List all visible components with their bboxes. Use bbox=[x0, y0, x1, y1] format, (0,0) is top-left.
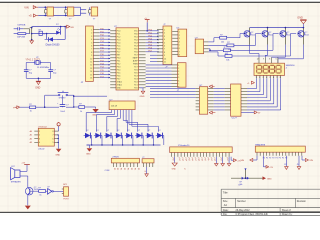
connector J1 bbox=[81, 26, 100, 84]
resistor pack RP1 bbox=[109, 99, 135, 109]
diode D2 bbox=[45, 37, 61, 46]
svg-text:Size: Size bbox=[223, 200, 228, 203]
svg-text:8: 8 bbox=[164, 52, 165, 54]
svg-text:U?: U? bbox=[36, 57, 38, 59]
svg-text:9012: 9012 bbox=[251, 34, 255, 36]
svg-text:P0.5: P0.5 bbox=[134, 49, 138, 51]
led D3 bbox=[84, 130, 92, 145]
svg-text:P1: P1 bbox=[137, 168, 139, 170]
svg-text:3: 3 bbox=[164, 36, 165, 38]
led D1 bbox=[56, 24, 60, 34]
svg-text:P2: P2 bbox=[266, 158, 268, 160]
ground sym speaker bbox=[25, 195, 31, 209]
svg-text:GND: GND bbox=[55, 155, 60, 157]
ic U5 bbox=[195, 37, 209, 53]
svg-text:P2.0: P2.0 bbox=[134, 88, 138, 90]
transistor Q1 bbox=[244, 28, 255, 45]
svg-text:VIN: VIN bbox=[309, 160, 313, 162]
svg-text:A3: A3 bbox=[30, 141, 32, 144]
svg-text:11.0592MHz: 11.0592MHz bbox=[37, 67, 49, 69]
resistor R4 bbox=[227, 42, 234, 51]
svg-text:1k: 1k bbox=[39, 195, 41, 197]
svg-text:2: 2 bbox=[164, 33, 165, 35]
capacitor C1 bbox=[14, 27, 24, 30]
svg-text:P2: P2 bbox=[263, 158, 265, 160]
led D10 bbox=[156, 130, 164, 145]
svg-text:P0.7: P0.7 bbox=[134, 55, 138, 57]
svg-text:GND: GND bbox=[86, 154, 91, 156]
svg-text:P2.2: P2.2 bbox=[134, 82, 138, 84]
svg-text:7: 7 bbox=[53, 135, 54, 137]
svg-text:Date:: Date: bbox=[223, 209, 229, 212]
svg-text:GND: GND bbox=[172, 169, 177, 171]
svg-text:D?: D? bbox=[158, 130, 160, 132]
ground sym U1 bbox=[140, 88, 145, 98]
svg-text:P2: P2 bbox=[272, 158, 274, 160]
svg-text:P1: P1 bbox=[116, 168, 118, 170]
svg-text:A2: A2 bbox=[30, 137, 32, 140]
svg-text:U?24C02: U?24C02 bbox=[38, 126, 48, 128]
transistor Q3 bbox=[280, 28, 291, 45]
svg-text:GND: GND bbox=[140, 96, 145, 98]
power port VCC U2 bbox=[57, 122, 60, 131]
svg-text:11: 11 bbox=[90, 62, 92, 64]
svg-text:P0.1: P0.1 bbox=[134, 37, 138, 39]
svg-text:File:: File: bbox=[223, 213, 228, 216]
svg-text:4: 4 bbox=[39, 142, 40, 144]
svg-text:SPEAKER: SPEAKER bbox=[11, 181, 21, 184]
resistor R2 bbox=[39, 30, 46, 36]
svg-text:1k: 1k bbox=[30, 111, 32, 113]
svg-text:U?: U? bbox=[47, 186, 49, 188]
svg-text:7: 7 bbox=[179, 51, 180, 53]
svg-text:P3.2: P3.2 bbox=[117, 64, 121, 66]
wire U2 right rail bbox=[58, 134, 59, 148]
svg-text:2: 2 bbox=[39, 135, 40, 137]
ground sym GND top right bbox=[297, 16, 306, 27]
svg-text:15: 15 bbox=[90, 74, 92, 76]
svg-text:8: 8 bbox=[269, 58, 270, 60]
wire reset right bbox=[68, 95, 107, 107]
svg-text:1k: 1k bbox=[43, 33, 45, 35]
svg-text:GND: GND bbox=[35, 88, 40, 90]
svg-text:2: 2 bbox=[178, 68, 179, 70]
svg-text:1k: 1k bbox=[80, 111, 82, 113]
mcu U1 AT89C51 bbox=[110, 26, 145, 90]
svg-text:P2: P2 bbox=[279, 158, 281, 160]
sheet top border bbox=[0, 2, 320, 3]
svg-text:1: 1 bbox=[164, 30, 165, 32]
svg-text:4: 4 bbox=[179, 41, 180, 43]
svg-text:9: 9 bbox=[164, 55, 165, 57]
svg-text:EA/VP: EA/VP bbox=[133, 57, 139, 60]
svg-text:26-May-2012: 26-May-2012 bbox=[236, 209, 251, 212]
wire VCC to U1 bbox=[146, 22, 148, 31]
wire mid bbox=[32, 33, 57, 35]
svg-text:P0.0: P0.0 bbox=[134, 34, 138, 36]
svg-text:1: 1 bbox=[39, 131, 40, 133]
net label ISP bbox=[105, 170, 110, 172]
svg-text:8: 8 bbox=[179, 55, 180, 57]
svg-text:P3.4: P3.4 bbox=[117, 70, 121, 72]
svg-text:5: 5 bbox=[179, 45, 180, 47]
led D7 bbox=[125, 130, 133, 145]
svg-text:D?: D? bbox=[96, 130, 98, 132]
connector J8 bbox=[170, 144, 233, 161]
svg-text:12: 12 bbox=[90, 65, 92, 67]
ground sym reset bbox=[92, 107, 99, 116]
port arrow U4 top bbox=[209, 85, 215, 88]
transformer T3 bbox=[89, 7, 98, 21]
svg-text:VIN: VIN bbox=[24, 5, 28, 9]
connector J7 bbox=[142, 157, 154, 177]
svg-text:P3.3: P3.3 bbox=[117, 67, 121, 69]
svg-text:P0.6: P0.6 bbox=[134, 52, 138, 54]
svg-text:8: 8 bbox=[53, 131, 54, 133]
svg-text:3: 3 bbox=[179, 38, 180, 40]
svg-text:P2: P2 bbox=[282, 158, 284, 160]
svg-text:C:\Program Files\..\89C51.ddb: C:\Program Files\..\89C51.ddb bbox=[236, 213, 269, 216]
svg-text:A0: A0 bbox=[30, 130, 32, 133]
svg-text:P1: P1 bbox=[127, 168, 129, 170]
svg-text:10: 10 bbox=[90, 58, 92, 60]
wire emitter rail bbox=[250, 27, 305, 29]
svg-text:P2.1: P2.1 bbox=[134, 85, 138, 87]
ground sym J9 a bbox=[284, 156, 288, 170]
wires Q emitters to display bbox=[250, 45, 304, 64]
svg-text:6: 6 bbox=[91, 46, 92, 48]
svg-text:4: 4 bbox=[178, 74, 179, 76]
svg-text:P1.5: P1.5 bbox=[117, 46, 121, 48]
svg-text:9: 9 bbox=[263, 58, 264, 60]
svg-text:5: 5 bbox=[91, 42, 92, 44]
svg-text:P1: P1 bbox=[113, 168, 115, 170]
ground sym J8 cluster bbox=[215, 157, 231, 166]
svg-text:XTAL2: XTAL2 bbox=[117, 81, 122, 84]
resistor R9 bbox=[33, 188, 48, 197]
svg-text:10k: 10k bbox=[221, 41, 224, 43]
svg-text:10k x8: 10k x8 bbox=[111, 105, 118, 107]
svg-text:10: 10 bbox=[164, 58, 166, 60]
svg-text:13: 13 bbox=[90, 68, 92, 70]
svg-text:PSEN: PSEN bbox=[133, 64, 138, 66]
svg-text:P2.7: P2.7 bbox=[134, 67, 138, 69]
led D8 bbox=[135, 130, 143, 145]
svg-text:C6P05B: C6P05B bbox=[17, 24, 26, 26]
svg-text:3: 3 bbox=[39, 138, 40, 140]
wire reset left bbox=[44, 95, 59, 108]
ic U4 latch bbox=[196, 85, 214, 114]
svg-text:4: 4 bbox=[91, 39, 92, 41]
ic U6 driver bbox=[225, 84, 247, 120]
capacitor C4 polarized bbox=[57, 95, 69, 113]
red mark J8 bbox=[183, 169, 185, 171]
wire crystal top bbox=[26, 63, 50, 70]
ground sym LED bus bbox=[86, 145, 92, 156]
svg-text:UL2?: UL2? bbox=[232, 118, 238, 120]
wire bundle U1 to J4 bbox=[146, 65, 172, 87]
svg-text:14: 14 bbox=[90, 71, 92, 73]
svg-text:P2: P2 bbox=[269, 158, 271, 160]
svg-text:COM: COM bbox=[105, 170, 110, 172]
speaker LS1 bbox=[11, 166, 22, 183]
svg-text:GND: GND bbox=[297, 16, 303, 19]
title block text bbox=[223, 190, 307, 216]
svg-text:5: 5 bbox=[53, 142, 54, 144]
svg-text:5: 5 bbox=[164, 42, 165, 44]
wire +5 rail bbox=[38, 15, 80, 17]
power port VIN right J9 bbox=[302, 156, 313, 162]
svg-text:1: 1 bbox=[179, 32, 180, 34]
svg-text:VIN: VIN bbox=[241, 160, 245, 162]
svg-text:Title: Title bbox=[223, 190, 228, 194]
wire speaker bbox=[20, 168, 28, 188]
svg-text:P3.7: P3.7 bbox=[117, 79, 121, 81]
svg-text:4: 4 bbox=[164, 39, 165, 41]
switch S1 reset bbox=[58, 91, 69, 100]
svg-text:D?: D? bbox=[117, 130, 119, 132]
crystal Y1 bbox=[25, 57, 49, 69]
svg-text:8: 8 bbox=[178, 87, 179, 89]
display DS1 4-digit 7seg bbox=[254, 57, 295, 75]
wire VIN rail bbox=[38, 6, 80, 8]
svg-text:P0.2: P0.2 bbox=[134, 40, 138, 42]
svg-text:Diode DH100: Diode DH100 bbox=[46, 44, 61, 46]
transistor Q5 bbox=[25, 187, 38, 195]
wires into U4 bbox=[150, 89, 196, 98]
eeprom U2 bbox=[30, 126, 59, 150]
svg-text:C6P05B: C6P05B bbox=[17, 36, 26, 38]
wires Q bases bbox=[227, 34, 296, 57]
power port RST left bbox=[13, 106, 29, 110]
wire reset bottom bbox=[45, 106, 75, 108]
svg-text:P1.6: P1.6 bbox=[117, 49, 121, 51]
ic U3 bbox=[172, 27, 187, 56]
svg-text:P1.3: P1.3 bbox=[117, 40, 121, 42]
svg-text:SM42056: SM42056 bbox=[286, 65, 296, 67]
svg-text:6: 6 bbox=[179, 48, 180, 50]
svg-text:J5: J5 bbox=[297, 164, 299, 166]
connector J4 bbox=[172, 63, 187, 92]
svg-text:GB: GB bbox=[70, 27, 74, 29]
svg-text:1: 1 bbox=[91, 30, 92, 32]
power port GND arrow right bbox=[263, 176, 273, 180]
resistor R7 bbox=[29, 104, 45, 113]
wire bundle display to U6 bbox=[247, 75, 281, 110]
transistor Q4 bbox=[298, 28, 309, 45]
svg-text:P1.7: P1.7 bbox=[117, 52, 121, 54]
svg-text:A1: A1 bbox=[30, 134, 32, 137]
title block frame bbox=[221, 189, 320, 216]
svg-text:D?: D? bbox=[107, 130, 109, 132]
resistor R1 bbox=[14, 33, 30, 39]
svg-text:Drawn by:: Drawn by: bbox=[282, 213, 293, 216]
svg-text:P1.0: P1.0 bbox=[117, 31, 121, 33]
svg-text:P0.3: P0.3 bbox=[134, 43, 138, 45]
svg-text:P1.4: P1.4 bbox=[117, 43, 121, 45]
power port +5V J9 bbox=[263, 156, 273, 169]
svg-text:P1: P1 bbox=[123, 168, 125, 170]
resistor R6 bbox=[225, 53, 232, 62]
led D4 bbox=[94, 130, 102, 145]
svg-text:5: 5 bbox=[178, 77, 179, 79]
svg-text:16: 16 bbox=[90, 78, 92, 80]
power port +5 bbox=[29, 14, 39, 18]
svg-text:P1.2: P1.2 bbox=[117, 37, 121, 39]
wire loopback bbox=[47, 27, 66, 40]
wire top out bbox=[32, 26, 66, 28]
svg-text:P1: P1 bbox=[133, 168, 135, 170]
svg-text:11: 11 bbox=[164, 62, 166, 64]
wire crystal bottom bbox=[26, 78, 50, 80]
connector buzzer port bbox=[62, 184, 70, 200]
svg-text:GND: GND bbox=[267, 179, 272, 181]
svg-text:Number: Number bbox=[237, 200, 246, 203]
svg-text:P2.5: P2.5 bbox=[134, 73, 138, 75]
svg-text:XTAL1: XTAL1 bbox=[117, 84, 122, 87]
svg-text:9012: 9012 bbox=[269, 34, 273, 36]
net label D title bbox=[239, 184, 243, 186]
svg-text:7: 7 bbox=[178, 83, 179, 85]
svg-text:10uF: 10uF bbox=[60, 111, 65, 113]
svg-text:D?: D? bbox=[138, 130, 140, 132]
capacitor C2 bbox=[24, 70, 33, 79]
power port +5V display bbox=[247, 81, 255, 85]
svg-text:D?: D? bbox=[148, 130, 150, 132]
ground sym J8 a bbox=[172, 157, 178, 171]
svg-text:3: 3 bbox=[178, 71, 179, 73]
wire fan RP to LEDs bbox=[86, 110, 158, 132]
svg-text:PORT: PORT bbox=[63, 198, 69, 200]
wires U5 to resistors bbox=[208, 38, 227, 56]
svg-text:P3.1: P3.1 bbox=[117, 61, 121, 63]
svg-text:9012: 9012 bbox=[305, 34, 309, 36]
svg-text:2: 2 bbox=[179, 35, 180, 37]
resistor R5 bbox=[223, 47, 230, 56]
connector J9 bbox=[255, 143, 305, 159]
svg-text:P2: P2 bbox=[276, 158, 278, 160]
svg-text:24C02: 24C02 bbox=[38, 149, 45, 151]
ground sym crystal bbox=[35, 78, 41, 89]
ground sym J9 b bbox=[297, 156, 301, 170]
svg-text:9012: 9012 bbox=[287, 34, 291, 36]
svg-text:P3.5: P3.5 bbox=[117, 73, 121, 75]
power port VIN bbox=[24, 5, 38, 9]
power port dp out bbox=[241, 111, 261, 115]
ground sym U2 bbox=[55, 149, 61, 157]
svg-text:7: 7 bbox=[91, 49, 92, 51]
transistor Q2 bbox=[262, 28, 273, 45]
svg-text:12: 12 bbox=[257, 58, 259, 60]
svg-text:P3.0: P3.0 bbox=[117, 58, 121, 60]
svg-text:P1.1: P1.1 bbox=[117, 34, 121, 36]
led D5 bbox=[104, 130, 112, 145]
svg-text:D?: D? bbox=[127, 130, 129, 132]
wires to J2 lower bbox=[150, 55, 157, 61]
svg-text:P2.3: P2.3 bbox=[134, 79, 138, 81]
wire cap-res column bbox=[23, 27, 32, 41]
wire T3 drop bbox=[81, 7, 87, 15]
svg-text:RST: RST bbox=[117, 55, 120, 57]
resistor R3 bbox=[220, 35, 227, 44]
svg-text:8: 8 bbox=[91, 52, 92, 54]
led D6 bbox=[115, 130, 123, 145]
svg-text:Sheet of: Sheet of bbox=[282, 209, 291, 212]
port arrow U4 bottom bbox=[209, 111, 215, 114]
svg-text:P1: P1 bbox=[120, 168, 122, 170]
svg-text:P1: P1 bbox=[130, 168, 132, 170]
capacitor C3 bbox=[48, 70, 57, 79]
power port J8 right bbox=[231, 157, 241, 163]
led D9 bbox=[145, 130, 153, 145]
svg-text:6: 6 bbox=[178, 80, 179, 82]
transformer T1 bbox=[45, 7, 54, 21]
power port VIN left J9 bbox=[241, 156, 257, 162]
net label row1 bbox=[17, 24, 26, 26]
wire LED cathode bus bbox=[87, 144, 161, 145]
node junction bottom right bbox=[231, 168, 263, 186]
svg-text:P2.4: P2.4 bbox=[134, 76, 138, 78]
gate U7 buffer bbox=[47, 186, 63, 194]
svg-text:Revision: Revision bbox=[297, 200, 307, 203]
transformer T2 bbox=[65, 7, 74, 21]
connector J2 bbox=[157, 24, 172, 68]
svg-text:9: 9 bbox=[91, 55, 92, 57]
svg-text:P2.6: P2.6 bbox=[134, 70, 138, 72]
svg-text:6: 6 bbox=[53, 138, 54, 140]
svg-text:P3.6: P3.6 bbox=[117, 76, 121, 78]
svg-text:1: 1 bbox=[178, 65, 179, 67]
connector J6 bbox=[111, 157, 139, 171]
wires U1 to J2 net labels bbox=[146, 30, 159, 53]
wires U4 to U6 bbox=[214, 89, 225, 110]
ground sym pwr bbox=[30, 40, 34, 44]
power port VCC bar bbox=[144, 18, 149, 23]
svg-text:P0.4: P0.4 bbox=[134, 46, 138, 48]
svg-text:6: 6 bbox=[164, 46, 165, 48]
svg-text:D?: D? bbox=[86, 130, 88, 132]
svg-text:3: 3 bbox=[91, 36, 92, 38]
svg-text:7: 7 bbox=[164, 49, 165, 51]
wires J1 to U1 with net labels bbox=[99, 28, 110, 78]
power port speaker VCC bbox=[21, 163, 29, 168]
svg-text:B?: B? bbox=[284, 164, 286, 166]
power port +5V out bbox=[65, 25, 74, 29]
sheet bottom border bbox=[0, 212, 320, 213]
svg-text:6: 6 bbox=[276, 58, 277, 60]
resistor R8 bbox=[74, 104, 96, 113]
svg-text:2: 2 bbox=[91, 33, 92, 35]
svg-text:10k: 10k bbox=[226, 60, 229, 62]
